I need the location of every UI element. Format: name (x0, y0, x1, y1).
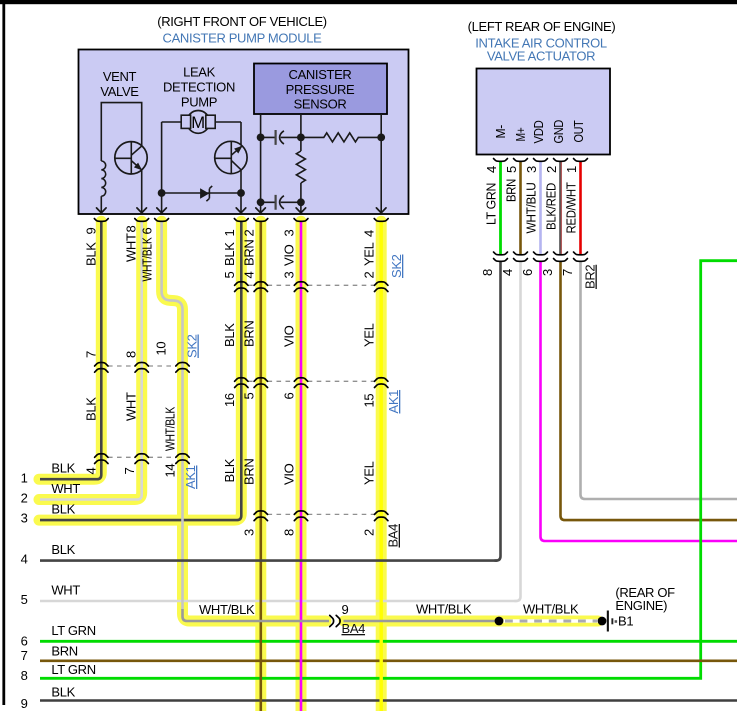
svg-text:WHT: WHT (124, 233, 139, 262)
svg-text:2: 2 (21, 491, 28, 506)
svg-text:M-: M- (493, 125, 508, 139)
svg-text:AK1: AK1 (183, 465, 198, 489)
svg-text:2: 2 (544, 166, 559, 173)
svg-text:VIO: VIO (282, 244, 297, 266)
svg-text:VIO: VIO (282, 463, 297, 485)
svg-text:2: 2 (362, 529, 377, 536)
svg-text:WHT: WHT (124, 392, 139, 421)
svg-text:SK2: SK2 (185, 334, 200, 358)
svg-text:15: 15 (362, 394, 377, 408)
svg-text:7: 7 (21, 648, 28, 663)
svg-text:6: 6 (282, 393, 297, 400)
svg-text:4: 4 (362, 230, 377, 237)
svg-text:VALVE ACTUATOR: VALVE ACTUATOR (487, 49, 595, 64)
svg-text:PRESSURE: PRESSURE (286, 82, 355, 97)
svg-text:BRN: BRN (242, 321, 257, 347)
svg-text:16: 16 (222, 393, 237, 407)
svg-text:YEL: YEL (362, 242, 377, 266)
svg-text:4: 4 (84, 468, 99, 475)
svg-text:8: 8 (480, 269, 495, 276)
svg-text:BLK/RED: BLK/RED (544, 183, 559, 230)
svg-text:9: 9 (342, 602, 349, 617)
svg-text:9: 9 (21, 696, 28, 711)
svg-text:GND: GND (551, 120, 566, 144)
svg-text:B1: B1 (618, 614, 633, 629)
svg-text:BRN: BRN (242, 459, 257, 485)
svg-text:WHT/BLU: WHT/BLU (524, 183, 539, 234)
svg-text:M+: M+ (513, 128, 528, 142)
svg-text:1: 1 (21, 471, 28, 486)
svg-text:BLK: BLK (51, 542, 75, 557)
svg-text:(LEFT REAR OF ENGINE): (LEFT REAR OF ENGINE) (468, 19, 616, 34)
svg-text:LT GRN: LT GRN (484, 183, 499, 225)
svg-text:1: 1 (222, 230, 237, 237)
svg-text:5: 5 (504, 166, 519, 173)
svg-text:3: 3 (524, 166, 539, 173)
svg-text:LT GRN: LT GRN (51, 662, 95, 677)
svg-text:4: 4 (242, 272, 257, 279)
svg-text:2: 2 (362, 272, 377, 279)
svg-text:VENT: VENT (103, 69, 137, 84)
svg-text:BR2: BR2 (583, 265, 598, 289)
svg-text:SENSOR: SENSOR (294, 97, 347, 112)
svg-text:BA4: BA4 (342, 621, 366, 636)
svg-text:8: 8 (282, 529, 297, 536)
svg-text:8: 8 (124, 226, 139, 233)
svg-text:3: 3 (282, 230, 297, 237)
svg-text:VDD: VDD (531, 121, 546, 144)
svg-text:3: 3 (21, 511, 28, 526)
svg-text:BLK: BLK (51, 685, 75, 700)
svg-text:CANISTER PUMP MODULE: CANISTER PUMP MODULE (163, 31, 323, 46)
svg-text:BRN: BRN (51, 644, 77, 659)
svg-text:(RIGHT FRONT OF VEHICLE): (RIGHT FRONT OF VEHICLE) (157, 14, 327, 29)
svg-text:WHT/BLK: WHT/BLK (523, 602, 579, 617)
svg-text:BLK: BLK (84, 397, 99, 421)
svg-text:14: 14 (163, 464, 178, 478)
svg-text:4: 4 (484, 166, 499, 173)
svg-text:BLK: BLK (222, 323, 237, 347)
svg-text:1: 1 (564, 166, 579, 173)
svg-text:5: 5 (222, 272, 237, 279)
svg-text:YEL: YEL (362, 323, 377, 347)
svg-text:BLK: BLK (222, 458, 237, 482)
svg-text:RED/WHT: RED/WHT (564, 182, 579, 233)
svg-text:3: 3 (540, 269, 555, 276)
svg-text:WHT: WHT (51, 583, 80, 598)
svg-text:M: M (191, 113, 205, 132)
svg-text:CANISTER: CANISTER (289, 67, 352, 82)
svg-text:BRN: BRN (504, 179, 519, 202)
svg-text:OUT: OUT (571, 120, 586, 142)
svg-text:6: 6 (140, 228, 155, 235)
svg-text:5: 5 (242, 393, 257, 400)
svg-text:WHT/BLK: WHT/BLK (140, 237, 155, 282)
svg-text:7: 7 (84, 351, 99, 358)
svg-text:VIO: VIO (282, 325, 297, 347)
svg-text:WHT/BLK: WHT/BLK (416, 602, 472, 617)
svg-text:WHT: WHT (51, 481, 80, 496)
svg-text:6: 6 (520, 269, 535, 276)
svg-text:YEL: YEL (362, 461, 377, 485)
svg-text:2: 2 (242, 230, 257, 237)
svg-text:BRN: BRN (242, 240, 257, 266)
svg-text:AK1: AK1 (386, 390, 401, 414)
svg-text:10: 10 (154, 342, 169, 356)
svg-text:LEAK: LEAK (183, 65, 216, 80)
svg-text:3: 3 (242, 529, 257, 536)
svg-text:BLK: BLK (51, 461, 75, 476)
svg-text:ENGINE): ENGINE) (615, 598, 667, 613)
svg-text:8: 8 (21, 668, 28, 683)
svg-text:VALVE: VALVE (100, 84, 139, 99)
svg-text:SK2: SK2 (389, 254, 404, 278)
svg-text:WHT/BLK: WHT/BLK (163, 406, 178, 451)
svg-text:7: 7 (560, 269, 575, 276)
svg-text:LT GRN: LT GRN (51, 623, 95, 638)
svg-text:BLK: BLK (84, 242, 99, 266)
svg-text:4: 4 (500, 269, 515, 276)
svg-text:BA4: BA4 (386, 524, 401, 548)
svg-text:5: 5 (21, 592, 28, 607)
svg-text:BLK: BLK (51, 502, 75, 517)
svg-text:7: 7 (122, 468, 137, 475)
svg-text:3: 3 (282, 272, 297, 279)
svg-text:PUMP: PUMP (181, 95, 217, 110)
svg-text:6: 6 (21, 634, 28, 649)
svg-text:DETECTION: DETECTION (163, 80, 235, 95)
svg-text:4: 4 (21, 552, 28, 567)
svg-text:BLK: BLK (222, 242, 237, 266)
svg-text:9: 9 (84, 228, 99, 235)
svg-text:WHT/BLK: WHT/BLK (199, 602, 255, 617)
svg-text:8: 8 (124, 351, 139, 358)
